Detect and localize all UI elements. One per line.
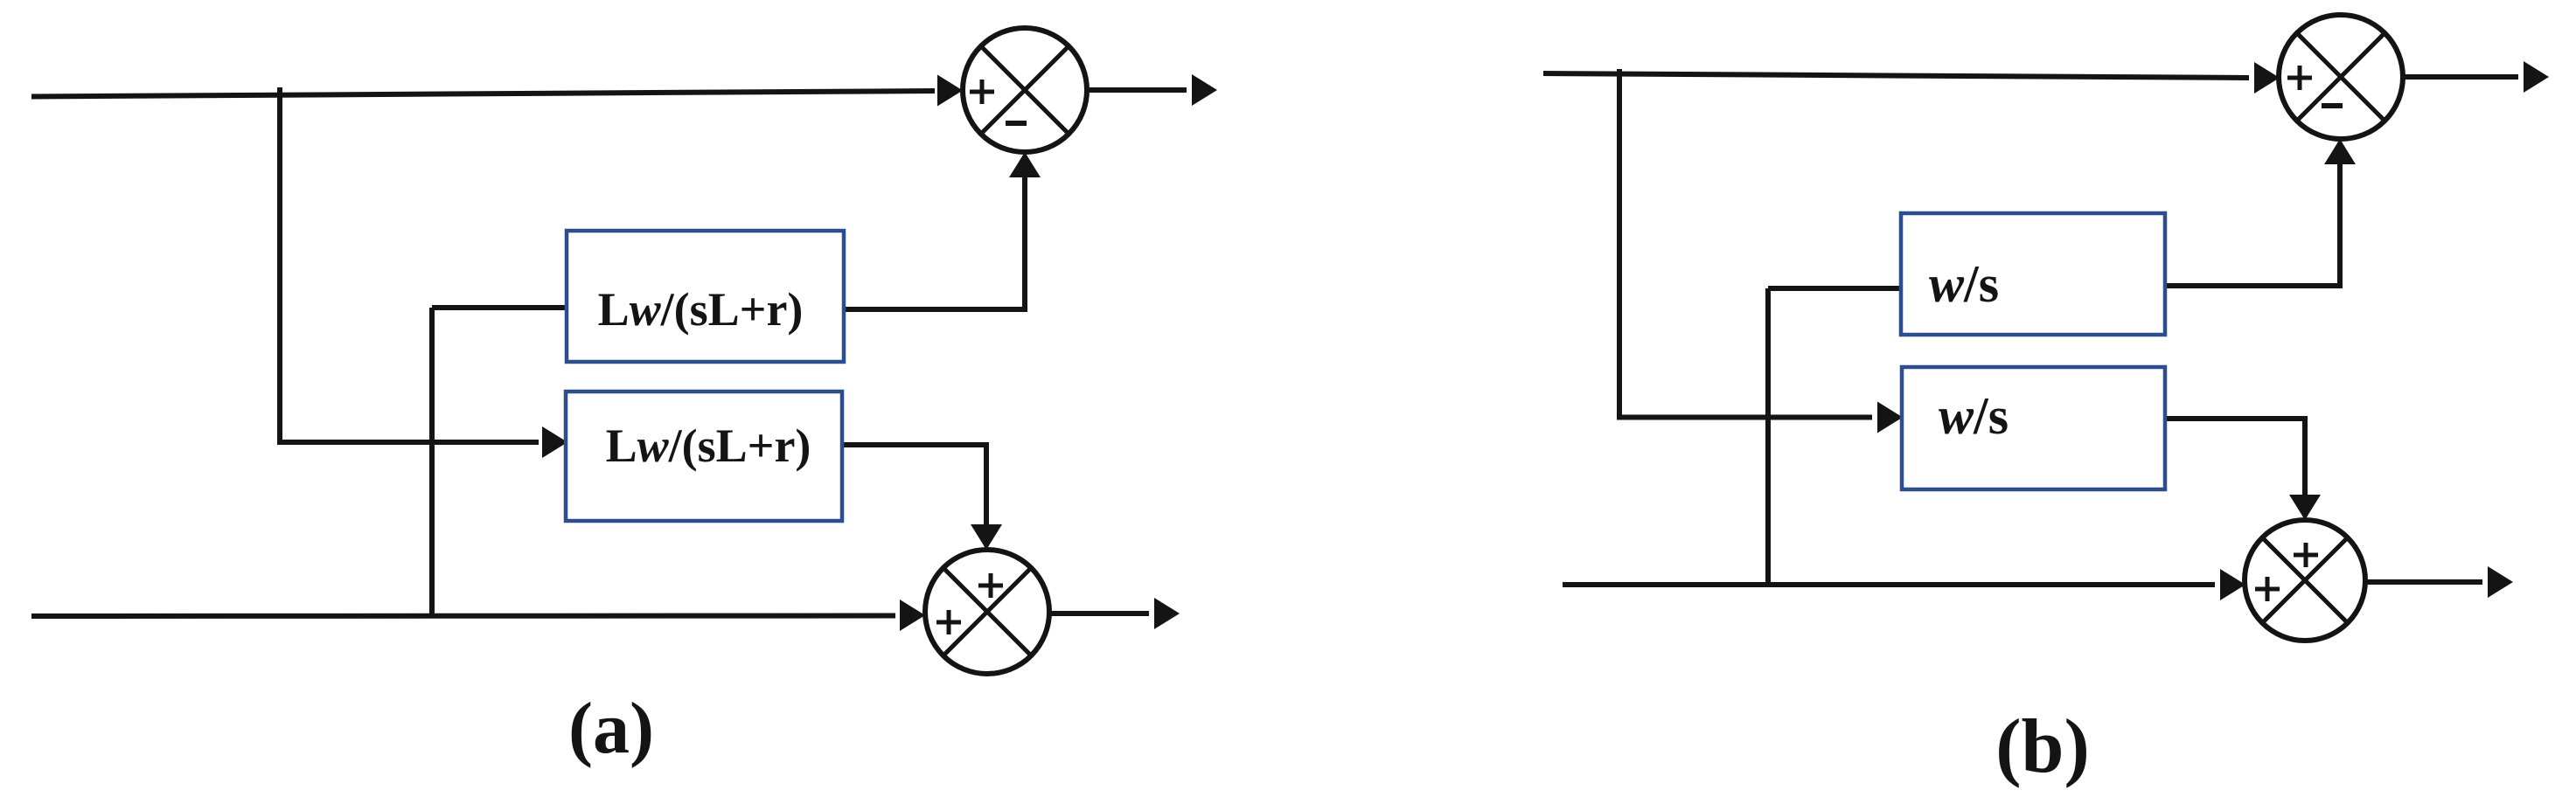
arrowhead: into (a) lower block bbox=[542, 426, 567, 458]
arrowhead: (a) upper block output into S1 bottom bbox=[1009, 152, 1041, 177]
svg-text:(a): (a) bbox=[568, 688, 654, 769]
arrowhead: into summer S2 from left bbox=[900, 600, 925, 631]
label: sub-figure (b) bbox=[1995, 704, 2090, 789]
arrowhead: into summer S4 from left bbox=[2220, 569, 2245, 600]
wire: (b) lower block output to summer S4 bbox=[2165, 419, 2305, 516]
summer S3: (b) top summing junction (+,-) bbox=[2279, 15, 2403, 139]
svg-text:(b): (b) bbox=[1995, 704, 2090, 789]
arrowhead: into (b) lower block bbox=[1877, 402, 1903, 433]
svg-text:w/s: w/s bbox=[1929, 255, 1999, 313]
wire: (a) bottom input line bbox=[31, 613, 895, 620]
wire: (b) input to upper block from lower rail vertical x=2022 bbox=[1768, 288, 1901, 585]
wire: (b) bottom input line bbox=[1563, 582, 2215, 587]
svg-text:Lw/(sL+r): Lw/(sL+r) bbox=[598, 283, 804, 336]
arrowhead: S3 output bbox=[2524, 61, 2549, 93]
block: (a) upper transfer function Lw/(sL+r) bbox=[567, 231, 844, 362]
arrowhead: (a) lower block output into S2 top bbox=[971, 524, 1002, 550]
summer S1: (a) top summing junction (+,-) bbox=[963, 28, 1087, 152]
arrowhead: S1 output bbox=[1192, 74, 1217, 106]
arrowhead: S4 output bbox=[2488, 566, 2513, 598]
wire: (a) summer S2 output bbox=[1049, 611, 1149, 616]
arrowhead: into summer S3 from left bbox=[2254, 62, 2280, 94]
wire: (a) input to upper block from lower rail vertical x=494 bbox=[432, 308, 567, 615]
arrowhead: S2 output bbox=[1154, 598, 1180, 629]
wire: (b) upper block output to summer S3 bbox=[2165, 142, 2340, 286]
block: (b) lower transfer function w/s bbox=[1902, 367, 2165, 489]
svg-text:w/s: w/s bbox=[1939, 387, 2009, 445]
block: (a) lower transfer function Lw/(sL+r) bbox=[566, 392, 842, 521]
wire: (b) summer S4 output bbox=[2365, 579, 2482, 585]
wire: (a) branch from top line down at x=320 bbox=[280, 87, 539, 442]
wire: diagram (a) top input line bbox=[31, 91, 935, 97]
arrowhead: into summer S1 from left bbox=[937, 75, 963, 107]
arrowhead: (b) upper block output into S3 bottom bbox=[2324, 139, 2356, 164]
summer S2: (a) bottom summing junction (+,+) bbox=[925, 550, 1049, 674]
wire: (a) upper block output to summer S1 bbox=[843, 156, 1025, 309]
summer S4: (b) bottom summing junction (+,+) bbox=[2245, 520, 2365, 641]
block: (b) upper transfer function w/s bbox=[1901, 213, 2165, 335]
wire: (a) lower block output to summer S2 bbox=[841, 445, 986, 546]
wire: diagram (b) top input line bbox=[1543, 73, 2249, 78]
wire: (b) summer S3 output bbox=[2403, 74, 2518, 80]
wire: (a) summer S1 output bbox=[1087, 87, 1187, 93]
svg-text:Lw/(sL+r): Lw/(sL+r) bbox=[606, 419, 811, 472]
arrowhead: (b) lower block output into S4 top bbox=[2289, 495, 2321, 520]
wire: (b) branch from top line down at x=1852 bbox=[1619, 69, 1872, 418]
label: sub-figure (a) bbox=[568, 688, 654, 769]
